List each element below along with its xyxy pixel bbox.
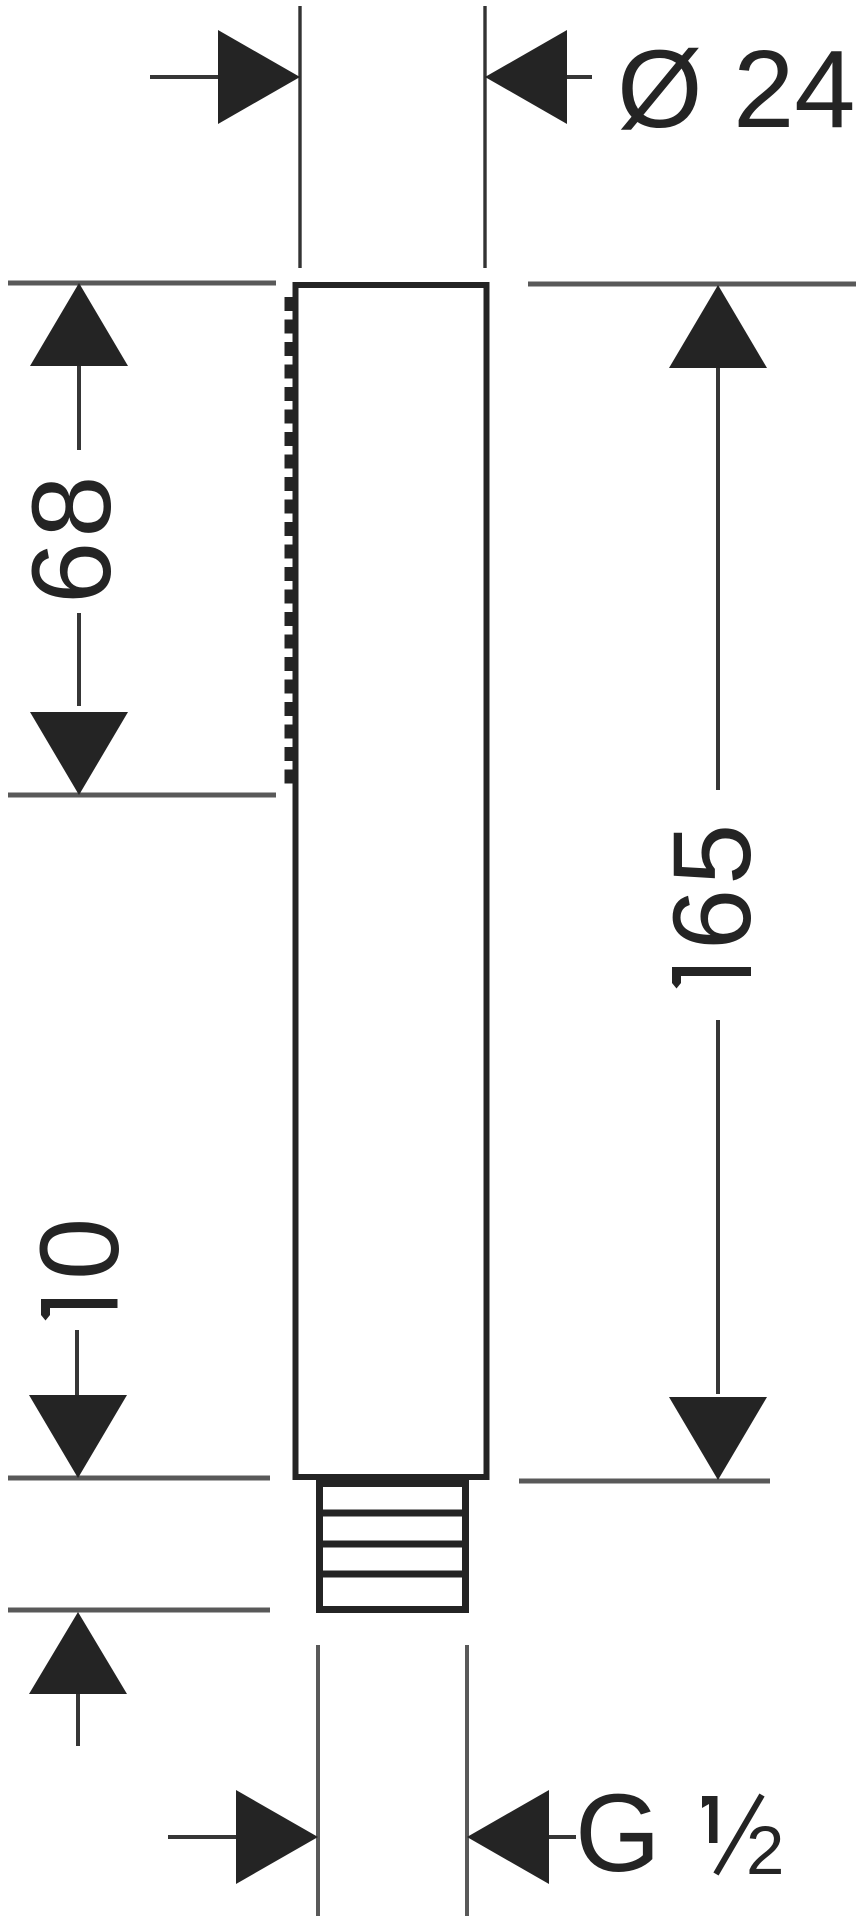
svg-text:0: 0	[17, 1218, 142, 1280]
svg-text:2: 2	[746, 1812, 784, 1889]
svg-text:Ø 24: Ø 24	[617, 28, 855, 151]
svg-text:G: G	[575, 1772, 661, 1895]
svg-text:68: 68	[9, 471, 134, 604]
svg-text:65: 65	[651, 820, 774, 950]
